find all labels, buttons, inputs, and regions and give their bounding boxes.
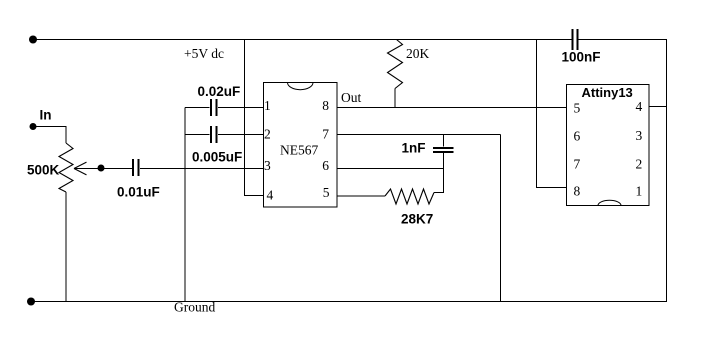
svg-text:1nF: 1nF (402, 141, 426, 156)
svg-text:7: 7 (574, 157, 581, 172)
resistor 28K7 zigzag (385, 189, 434, 204)
potentiometer wiper arrow (74, 162, 87, 175)
wire top rail right segment after 100nF (578, 39, 667, 41)
svg-text:0.01uF: 0.01uF (117, 185, 160, 200)
capacitor 100nF plates (572, 29, 579, 50)
svg-text:0.005uF: 0.005uF (192, 150, 242, 165)
wire pin7 drop to ground rail (500, 135, 502, 302)
junction dot wiper node (98, 165, 105, 172)
capacitor 1nF plates (433, 147, 454, 153)
wire VCC drop to Attiny pin8 (537, 40, 567, 188)
wire NE567 pin1 segment left (185, 107, 210, 109)
svg-text:+5V dc: +5V dc (184, 46, 224, 61)
wire top +5V rail left segment (33, 39, 572, 41)
junction dot +5V rail left end (29, 36, 37, 44)
wire input node to 0.01uF (74, 168, 132, 170)
wire 1nF top lead (443, 135, 445, 147)
svg-text:NE567: NE567 (280, 143, 318, 158)
wire NE567 pin5 to 28K7 (337, 195, 385, 197)
resistor 500K potentiometer zigzag (59, 143, 73, 192)
capacitor 0.02uF plates (210, 99, 218, 116)
svg-text:20K: 20K (406, 46, 430, 61)
wire right vertical ground drop (666, 40, 668, 303)
svg-text:1: 1 (636, 184, 643, 199)
svg-text:6: 6 (574, 129, 581, 144)
wire Attiny pin4 to right drop (649, 106, 667, 108)
svg-text:100nF: 100nF (562, 50, 601, 65)
wire +5V drop to NE567 pin4 (245, 40, 264, 196)
wire 28K7 right end to 1nF lead (434, 192, 444, 194)
IC U2 Attiny13 box (567, 85, 650, 206)
svg-text:8: 8 (574, 184, 581, 199)
svg-text:8: 8 (322, 98, 329, 113)
wire 0.01uF to NE567 pin3 (140, 168, 264, 170)
capacitor 0.005uF plates (210, 126, 218, 143)
junction dot In node (30, 123, 37, 130)
wire ground bus left of NE567 (184, 108, 186, 302)
wire NE567 pin8 Out to Attiny pin5 (337, 107, 567, 109)
wire NE567 pin7 to right drop (337, 134, 501, 136)
svg-text:1: 1 (264, 98, 271, 113)
svg-text:0.02uF: 0.02uF (198, 84, 241, 99)
wire potentiometer bottom lead (65, 192, 67, 302)
svg-text:Ground: Ground (174, 300, 215, 315)
wire NE567 pin1 segment right (218, 107, 264, 109)
svg-text:6: 6 (322, 158, 329, 173)
wire bottom ground rail (31, 301, 667, 303)
svg-text:3: 3 (636, 128, 643, 143)
capacitor 0.01uF plates (132, 159, 140, 176)
svg-text:Attiny13: Attiny13 (582, 85, 633, 100)
wire NE567 pin2 segment right (218, 134, 264, 136)
wire In stub (33, 127, 66, 144)
wire NE567 pin2 segment left (185, 134, 210, 136)
svg-text:2: 2 (264, 127, 271, 142)
wire 1nF bottom lead down to 28K7 (443, 153, 445, 193)
svg-text:4: 4 (267, 188, 274, 203)
svg-text:7: 7 (322, 127, 329, 142)
svg-text:Out: Out (341, 90, 361, 105)
wire NE567 pin6 (337, 168, 444, 170)
svg-text:2: 2 (636, 157, 643, 172)
svg-text:3: 3 (264, 158, 271, 173)
svg-text:5: 5 (574, 101, 581, 116)
svg-text:500K: 500K (27, 163, 60, 178)
svg-text:28K7: 28K7 (401, 212, 433, 227)
resistor 20K zigzag (388, 40, 403, 89)
svg-text:In: In (40, 108, 52, 123)
svg-text:4: 4 (636, 99, 643, 114)
svg-text:5: 5 (323, 185, 330, 200)
junction dot ground rail left end (27, 298, 35, 306)
wire 20K bottom lead (394, 89, 396, 108)
IC U1 NE567 tone decoder box (264, 83, 338, 208)
